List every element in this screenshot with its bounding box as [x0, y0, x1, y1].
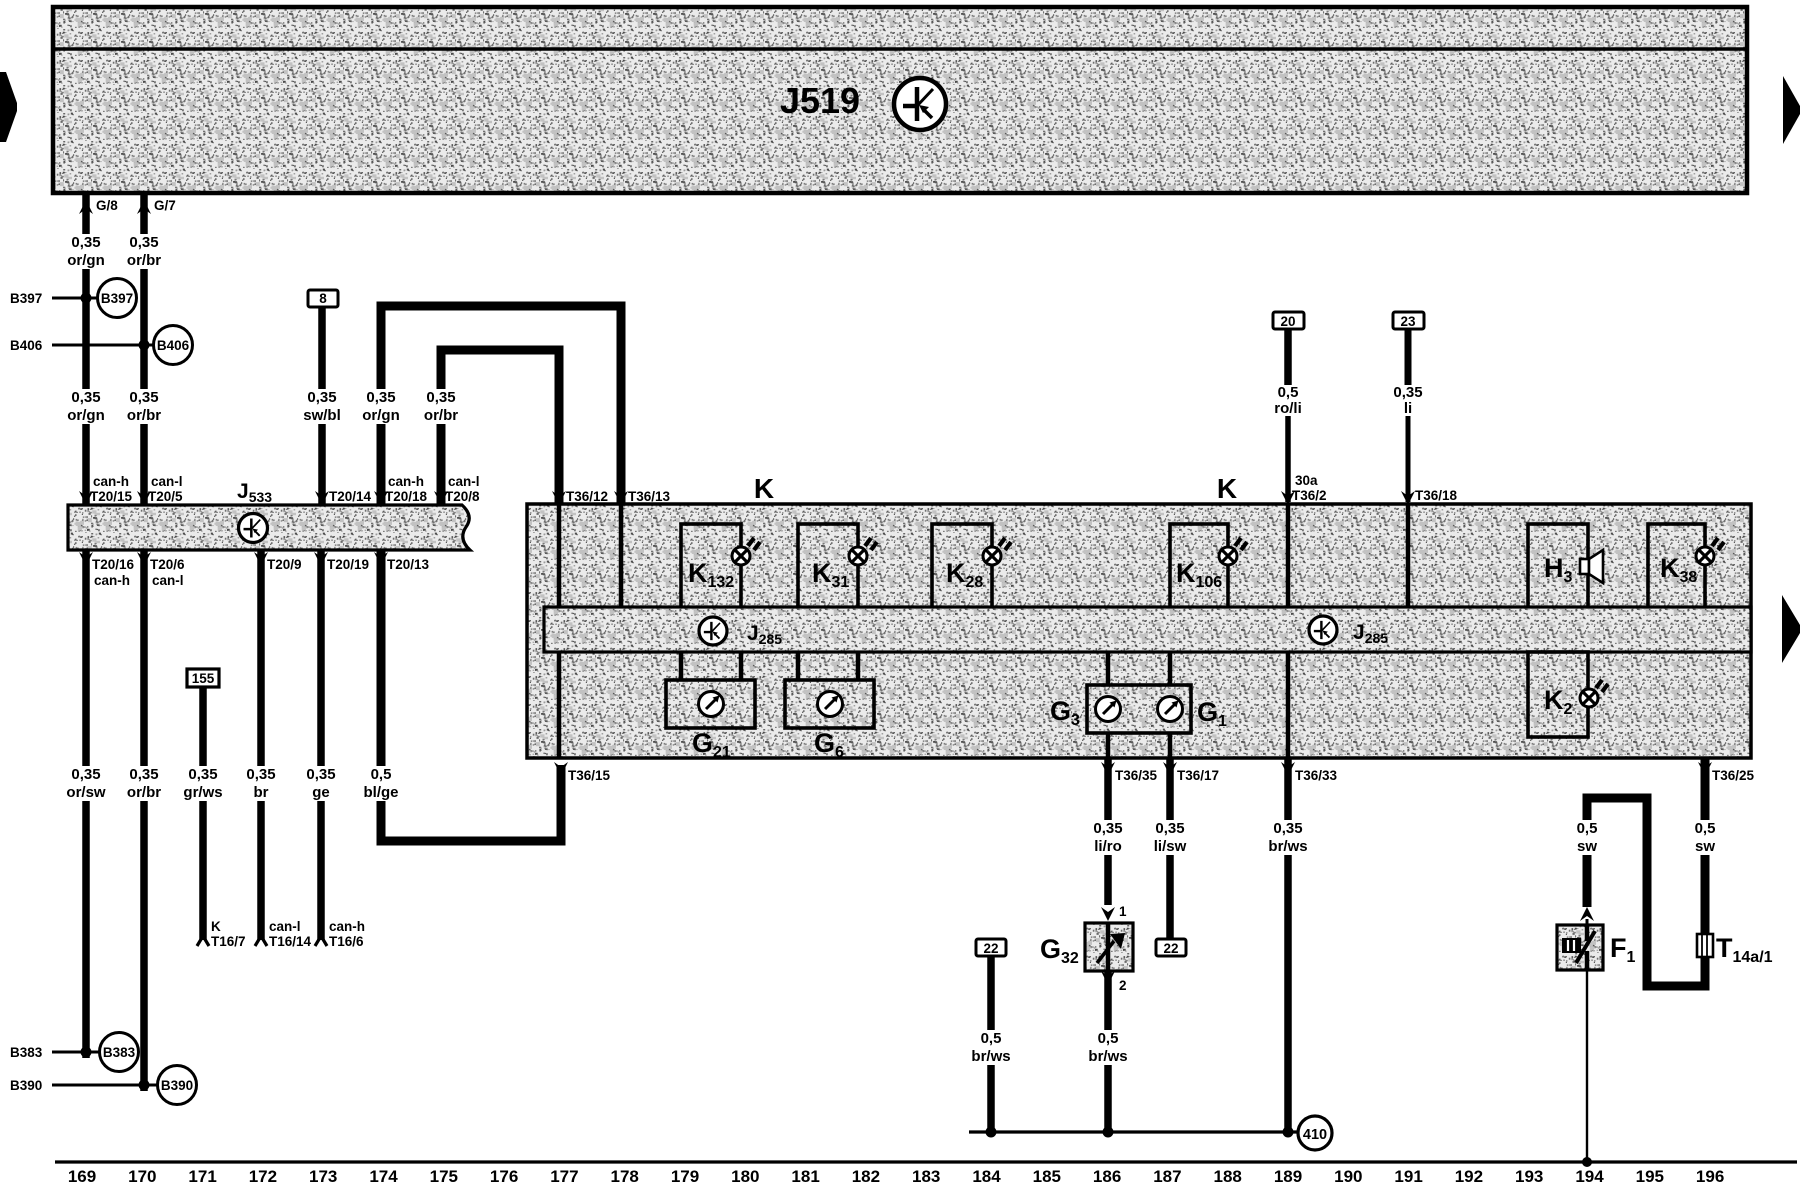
splice B397 [52, 279, 137, 318]
svg-text:T36/15: T36/15 [568, 768, 611, 783]
svg-text:J519: J519 [780, 80, 860, 121]
svg-text:0,35: 0,35 [307, 389, 336, 406]
svg-text:0,35: 0,35 [71, 234, 100, 251]
wire value 0,35 or/gn [357, 389, 405, 424]
svg-text:can-l: can-l [151, 474, 183, 489]
svg-text:0,5: 0,5 [1278, 384, 1299, 401]
svg-text:0,5: 0,5 [981, 1030, 1002, 1047]
wire value 0,35 or/br (lower) [120, 766, 168, 801]
wire sw/bl from connector 8 to J533 T20/14 [318, 307, 326, 505]
svg-text:can-l: can-l [269, 919, 301, 934]
label K2 [1544, 685, 1573, 718]
label G21 [692, 728, 731, 761]
svg-text:can-h: can-h [329, 919, 365, 934]
svg-text:0,35: 0,35 [71, 389, 100, 406]
svg-text:0,35: 0,35 [1393, 384, 1422, 401]
svg-text:B390: B390 [10, 1078, 42, 1093]
end label can-l T16/14 [269, 919, 312, 949]
svg-text:180: 180 [731, 1167, 759, 1185]
svg-text:0,35: 0,35 [1155, 820, 1184, 837]
svg-text:0,35: 0,35 [129, 234, 158, 251]
svg-text:T36/35: T36/35 [1115, 768, 1158, 783]
svg-text:br/ws: br/ws [971, 1048, 1010, 1065]
svg-text:30a: 30a [1295, 473, 1318, 488]
buzzer H3 box [1528, 524, 1588, 608]
wire value 0,5 ro/li [1274, 384, 1302, 417]
top right continuation arrow [1783, 76, 1800, 144]
left continuation arrow [0, 72, 17, 142]
label K28 [946, 558, 983, 591]
svg-text:0,5: 0,5 [1695, 820, 1716, 837]
wire br/ws from connector 22 to ground point (track 184) [987, 956, 995, 1132]
wire value 0,35 or/br [417, 389, 465, 424]
svg-text:can-l: can-l [152, 573, 184, 588]
svg-text:181: 181 [791, 1167, 819, 1185]
wire value 0,35 or/br (mid) [120, 389, 168, 424]
pin T20/5 CAN-l into J533 [137, 474, 183, 505]
svg-text:187: 187 [1153, 1167, 1181, 1185]
svg-text:br/ws: br/ws [1268, 838, 1307, 855]
svg-text:or/br: or/br [127, 784, 161, 801]
connector 155 [187, 669, 219, 687]
svg-text:0,5: 0,5 [1098, 1030, 1119, 1047]
svg-text:8: 8 [319, 291, 327, 306]
left margin label B390 [10, 1078, 42, 1093]
wire value 0,35 ge [297, 766, 345, 801]
svg-text:li: li [1404, 400, 1412, 417]
svg-text:193: 193 [1515, 1167, 1543, 1185]
gauge symbol G6 [818, 692, 843, 717]
svg-text:B397: B397 [101, 291, 133, 306]
warning lamp K2 box [1528, 652, 1588, 737]
connector 22 (right) [1156, 939, 1186, 956]
warning lamp K38 box [1648, 524, 1705, 608]
svg-text:179: 179 [671, 1167, 699, 1185]
svg-text:T20/6: T20/6 [150, 557, 185, 572]
svg-text:T20/16: T20/16 [92, 557, 135, 572]
label J285 (right) [1353, 621, 1388, 646]
svg-text:0,5: 0,5 [371, 766, 392, 783]
svg-text:T36/2: T36/2 [1292, 488, 1327, 503]
svg-text:0,35: 0,35 [1093, 820, 1122, 837]
svg-text:178: 178 [611, 1167, 639, 1185]
pin T20/13 out of J533 [374, 552, 430, 572]
wire li/ro from K T36/35 to G32 [1104, 758, 1112, 905]
lamp symbol K132 [732, 538, 760, 565]
svg-text:can-l: can-l [448, 474, 480, 489]
connector 8 [308, 290, 338, 307]
svg-text:1: 1 [1119, 904, 1127, 919]
svg-text:K: K [211, 919, 221, 934]
left margin label B383 [10, 1045, 43, 1060]
pin T20/18 CAN-h into J533 [374, 474, 428, 505]
svg-text:0,35: 0,35 [426, 389, 455, 406]
svg-text:B390: B390 [161, 1078, 193, 1093]
svg-text:183: 183 [912, 1167, 940, 1185]
splice B406 [52, 326, 193, 365]
svg-text:or/gn: or/gn [362, 407, 400, 424]
svg-text:ge: ge [312, 784, 330, 801]
left margin label B397 [10, 291, 42, 306]
svg-text:T20/19: T20/19 [327, 557, 369, 572]
wire value 0,5 br/ws [1084, 1030, 1132, 1065]
ground bus line [969, 1130, 1297, 1133]
connector 23 [1393, 312, 1424, 329]
svg-text:176: 176 [490, 1167, 518, 1185]
pin label G/8 [96, 198, 118, 213]
label G1 [1197, 697, 1227, 730]
svg-text:sw: sw [1577, 838, 1597, 855]
svg-text:br: br [254, 784, 269, 801]
left margin label B406 [10, 338, 43, 353]
connector 22 (left) [976, 939, 1006, 956]
wire ro/li from connector 20 to K pin 30a T36/2 (track 189) [1284, 329, 1292, 502]
wire value 0,35 or/br (upper) [120, 234, 168, 269]
warning lamp K28 box [932, 524, 992, 608]
data bus gateway J533 bar [68, 505, 470, 550]
svg-text:0,35: 0,35 [71, 766, 100, 783]
label G32 [1040, 934, 1079, 967]
svg-text:T16/14: T16/14 [269, 934, 312, 949]
J519 diagnosis symbol [894, 78, 946, 130]
wire value 0,5 bl/ge [357, 766, 405, 801]
svg-text:T36/33: T36/33 [1295, 768, 1338, 783]
wire value 0,35 br [237, 766, 285, 801]
label G3 [1050, 696, 1080, 729]
wire li/sw from K T36/17 to connector 22 (track 187) [1166, 758, 1174, 939]
svg-text:li/sw: li/sw [1154, 838, 1187, 855]
svg-text:192: 192 [1455, 1167, 1483, 1185]
svg-text:B406: B406 [10, 338, 43, 353]
wire value 0,35 or/sw (lower) [62, 766, 110, 801]
connector T14a/1 symbol [1697, 934, 1713, 957]
svg-text:T20/8: T20/8 [445, 489, 480, 504]
svg-text:T20/9: T20/9 [267, 557, 302, 572]
svg-text:185: 185 [1033, 1167, 1061, 1185]
gauge symbol G3 [1096, 697, 1121, 722]
pin 30a T36/2 into K [1281, 473, 1327, 505]
gauge symbol G21 [699, 692, 724, 717]
svg-text:or/br: or/br [424, 407, 458, 424]
label J519 [780, 80, 860, 121]
internal wire from 30a T36/2 through K to T36/33 [1286, 504, 1291, 758]
svg-text:410: 410 [1303, 1127, 1327, 1143]
svg-text:ro/li: ro/li [1274, 400, 1302, 417]
svg-text:0,35: 0,35 [306, 766, 335, 783]
internal wire from T36/18 to J285 [1406, 504, 1411, 608]
svg-text:184: 184 [972, 1167, 1001, 1185]
control unit J519 (onboard supply control unit) box [53, 7, 1747, 193]
svg-text:171: 171 [188, 1167, 216, 1185]
svg-text:T20/5: T20/5 [148, 489, 183, 504]
warning lamp K106 box [1170, 524, 1228, 608]
wire or/gn CAN-h loop J533 T20/18 to K T36/13 [381, 306, 621, 505]
junction dot at G32 wire [1103, 1127, 1114, 1138]
label K38 [1660, 553, 1697, 586]
svg-text:194: 194 [1575, 1167, 1604, 1185]
connector 20 [1273, 312, 1304, 329]
svg-text:0,35: 0,35 [1273, 820, 1302, 837]
pin 1 of G32 [1101, 904, 1127, 921]
wire value 0,35 br/ws [1264, 820, 1312, 855]
svg-text:174: 174 [369, 1167, 398, 1185]
warning lamp K31 box [798, 524, 858, 608]
wire or/br CAN-l loop J533 T20/8 to K T36/12 [441, 350, 559, 505]
speaker symbol H3 [1580, 550, 1603, 583]
svg-text:sw/bl: sw/bl [303, 407, 341, 424]
wire G/8 or/gn CAN-h from J519 (track 169) [79, 195, 93, 1058]
lamp symbol K2 [1580, 680, 1608, 707]
label K132 [688, 558, 734, 591]
svg-text:br/ws: br/ws [1088, 1048, 1127, 1065]
label K106 [1176, 558, 1222, 591]
label J285 (left) [747, 622, 782, 647]
svg-text:T36/12: T36/12 [566, 489, 608, 504]
svg-text:0,35: 0,35 [188, 766, 217, 783]
lamp symbol K38 [1696, 538, 1724, 565]
gauge symbol G1 [1158, 697, 1183, 722]
connecting wires J285 to G21 [679, 652, 744, 680]
label K (right) [1217, 473, 1237, 504]
svg-text:170: 170 [128, 1167, 156, 1185]
splice B383 [52, 1033, 139, 1072]
svg-text:K: K [1217, 473, 1237, 504]
wire bl/ge from J533 T20/13 to K T36/15 (track 174) [381, 550, 561, 841]
arrow into F1 [1580, 907, 1594, 925]
junction dot at T36/33 wire [1283, 1127, 1294, 1138]
wire value 0,5 sw (left, track 194) [1563, 820, 1611, 855]
wire li from connector 23 to K pin T36/18 (track 191) [1405, 329, 1412, 502]
J533 diagnosis symbol [239, 514, 268, 543]
internal wire from T36/12 through K to T36/15 [557, 504, 562, 758]
label K (left) [754, 473, 774, 504]
label G6 [814, 728, 844, 761]
wire value 0,35 li/sw [1146, 820, 1194, 855]
svg-text:sw: sw [1695, 838, 1715, 855]
svg-text:T16/6: T16/6 [329, 934, 364, 949]
svg-text:T36/13: T36/13 [628, 489, 671, 504]
wire value 0,35 gr/ws [179, 766, 227, 801]
instrument cluster K box [527, 504, 1751, 758]
svg-text:T36/25: T36/25 [1712, 768, 1755, 783]
wire K-lead gr/ws from connector 155 (track 171) [197, 687, 209, 946]
svg-text:can-h: can-h [388, 474, 424, 489]
svg-text:22: 22 [1163, 941, 1178, 956]
svg-text:B383: B383 [103, 1045, 136, 1060]
svg-text:195: 195 [1636, 1167, 1664, 1185]
wire value 0,35 li [1393, 384, 1422, 417]
svg-text:or/gn: or/gn [67, 407, 105, 424]
svg-text:182: 182 [852, 1167, 880, 1185]
svg-text:or/br: or/br [127, 252, 161, 269]
ground point 410 [1298, 1116, 1332, 1150]
svg-text:23: 23 [1400, 314, 1416, 329]
svg-text:177: 177 [550, 1167, 578, 1185]
svg-text:172: 172 [249, 1167, 277, 1185]
wire value 0,5 br/ws [967, 1030, 1015, 1065]
pin T20/9 out of J533 [254, 552, 302, 572]
right continuation arrow at J285 level [1782, 595, 1800, 663]
svg-text:B397: B397 [10, 291, 42, 306]
svg-text:173: 173 [309, 1167, 337, 1185]
svg-text:196: 196 [1696, 1167, 1724, 1185]
pin T20/16 CAN-h out of J533 [79, 552, 135, 588]
svg-text:T20/14: T20/14 [329, 489, 372, 504]
svg-text:22: 22 [983, 941, 998, 956]
svg-text:T20/18: T20/18 [385, 489, 428, 504]
pin T20/14 into J533 [315, 489, 372, 505]
label T14a/1 [1716, 933, 1773, 966]
current track numbers 169-196 [68, 1167, 1724, 1186]
wire value 0,5 sw (right, track 196) [1681, 820, 1729, 855]
pin T36/33 out of K [1281, 762, 1338, 783]
pin T36/12 into K [552, 489, 608, 505]
gauge G6 box [785, 680, 874, 728]
wire br/ws from K T36/33 to ground point 410 [1284, 758, 1292, 1132]
pin 2 of G32 [1101, 971, 1127, 993]
warning lamp K132 box [681, 524, 741, 608]
svg-text:T20/15: T20/15 [90, 489, 133, 504]
svg-text:T16/7: T16/7 [211, 934, 246, 949]
svg-text:T36/18: T36/18 [1415, 488, 1458, 503]
pin T36/15 out of K [554, 762, 611, 783]
pin T36/13 into K [614, 489, 671, 505]
svg-text:155: 155 [192, 671, 215, 686]
label K31 [812, 558, 849, 591]
J285 diagnosis symbol (left) [699, 617, 727, 645]
svg-text:189: 189 [1274, 1167, 1302, 1185]
svg-text:li/ro: li/ro [1094, 838, 1122, 855]
pin T36/35 out of K [1101, 762, 1158, 783]
svg-text:0,35: 0,35 [246, 766, 275, 783]
svg-text:K: K [754, 473, 774, 504]
svg-text:169: 169 [68, 1167, 96, 1185]
svg-text:G/7: G/7 [154, 198, 176, 213]
lamp symbol K28 [983, 538, 1011, 565]
svg-text:or/br: or/br [127, 407, 161, 424]
svg-text:175: 175 [430, 1167, 458, 1185]
svg-text:or/sw: or/sw [66, 784, 106, 801]
internal wire from T36/13 to J285 [619, 504, 624, 608]
svg-text:can-h: can-h [93, 474, 129, 489]
wire CAN-h ge from J533 T20/19 (track 173) [315, 550, 327, 946]
svg-text:188: 188 [1214, 1167, 1242, 1185]
pin T36/25 out of K [1698, 762, 1755, 783]
pin T36/18 into K [1401, 488, 1458, 505]
current track rail [55, 1160, 1797, 1163]
pin T20/8 CAN-l into J533 [434, 474, 480, 505]
svg-text:bl/ge: bl/ge [363, 784, 398, 801]
gauge G3/G1 box [1087, 685, 1191, 733]
svg-text:190: 190 [1334, 1167, 1362, 1185]
splice B390 [52, 1066, 197, 1105]
wire value 0,35 li/ro [1084, 820, 1132, 855]
wire sw from K T36/25 through T14a/1 to F1 [1587, 758, 1705, 986]
svg-text:T20/13: T20/13 [387, 557, 430, 572]
svg-text:B383: B383 [10, 1045, 43, 1060]
svg-text:20: 20 [1280, 314, 1295, 329]
label H3 [1544, 553, 1573, 586]
label J533 [237, 480, 272, 505]
wire G/7 or/br CAN-l from J519 (track 170) [137, 195, 151, 1091]
wire value 0,35 or/gn (upper) [62, 234, 110, 269]
fuel gauge sender G32 box [1085, 923, 1133, 971]
pin T36/17 out of K [1163, 762, 1219, 783]
pin T20/6 CAN-l out of J533 [137, 552, 185, 588]
connecting wires J285 to G6 [796, 652, 861, 680]
junction dot at connector 22 wire [986, 1127, 997, 1138]
svg-text:191: 191 [1394, 1167, 1422, 1185]
wire CAN-l br from J533 T20/9 (track 172) [255, 550, 267, 946]
J285 diagnosis symbol (right) [1309, 616, 1337, 644]
pin T20/19 out of J533 [314, 552, 369, 572]
pin label G/7 [154, 198, 176, 213]
connecting wires J285 to G3/G1 and down to pins [1106, 652, 1173, 758]
svg-text:2: 2 [1119, 978, 1127, 993]
svg-text:0,5: 0,5 [1577, 820, 1598, 837]
gauge G21 box [666, 680, 755, 728]
svg-text:gr/ws: gr/ws [183, 784, 222, 801]
svg-text:0,35: 0,35 [366, 389, 395, 406]
label F1 [1610, 933, 1636, 966]
wire br/ws from G32 to ground point [1104, 971, 1112, 1132]
wire value 0,35 sw/bl [298, 389, 346, 424]
thin wire F1 to current track rail [1582, 970, 1592, 1167]
svg-text:0,35: 0,35 [129, 766, 158, 783]
svg-text:or/gn: or/gn [67, 252, 105, 269]
svg-text:G/8: G/8 [96, 198, 118, 213]
wire value 0,35 or/gn (mid) [62, 389, 110, 424]
pin T20/15 CAN-h into J533 [79, 474, 133, 505]
svg-text:T36/17: T36/17 [1177, 768, 1219, 783]
svg-text:186: 186 [1093, 1167, 1121, 1185]
svg-text:can-h: can-h [94, 573, 130, 588]
lamp symbol K31 [849, 538, 877, 565]
end label can-h T16/6 [329, 919, 365, 949]
oil pressure switch F1 box [1557, 925, 1603, 970]
lamp symbol K106 [1219, 538, 1247, 565]
end label K T16/7 [211, 919, 246, 949]
control unit J285 bar (in dash panel insert) [544, 607, 1751, 652]
svg-text:0,35: 0,35 [129, 389, 158, 406]
svg-text:B406: B406 [157, 338, 190, 353]
